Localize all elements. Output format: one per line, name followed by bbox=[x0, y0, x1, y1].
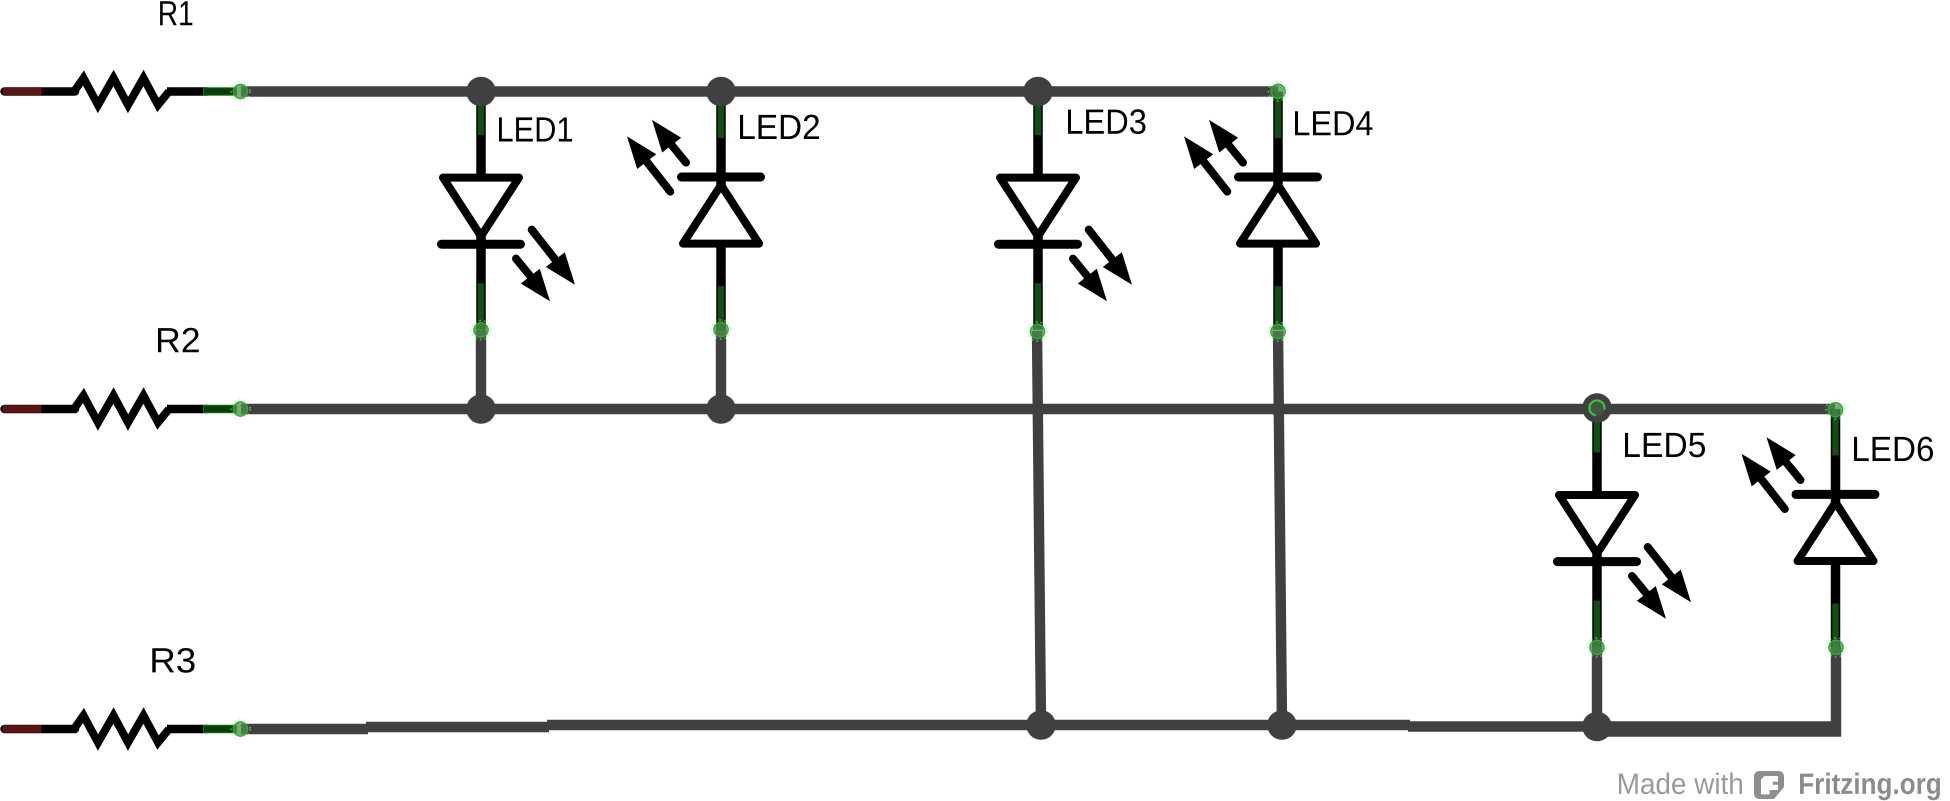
wire LED1 cathode to net2 bbox=[476, 330, 486, 409]
wire LED6 anode corner to net3 bbox=[1592, 647, 1836, 732]
label LED4 bbox=[1295, 111, 1373, 135]
watermark Made with text bbox=[1619, 773, 1742, 795]
junction node net1-LED3 bbox=[1023, 77, 1053, 107]
pin terminal LED3 bottom bbox=[1028, 322, 1047, 341]
wire net3 R3 rail segment d bbox=[1408, 721, 1836, 731]
pin terminal LED2 bottom bbox=[711, 320, 730, 339]
label R1 bbox=[160, 1, 192, 25]
wire net2 R2 rail bbox=[241, 404, 1835, 414]
resistor R2 bbox=[3, 396, 250, 423]
wire LED5 cathode to net3 bbox=[1592, 647, 1602, 727]
junction node net3-LED3 bbox=[1026, 710, 1056, 740]
wire net1 R1 rail bbox=[241, 86, 1278, 96]
junction node net2-LED5 bbox=[1582, 393, 1612, 423]
resistor R3 bbox=[3, 716, 250, 743]
label LED6 bbox=[1854, 437, 1933, 462]
pin terminal LED4 anode top bbox=[1268, 82, 1287, 101]
LED LED1 bbox=[442, 92, 576, 330]
LED LED2 bbox=[627, 92, 761, 330]
junction node net1-LED1 bbox=[466, 77, 496, 107]
wire net3 R3 rail segment a bbox=[241, 724, 368, 734]
junction node net2-LED2 bbox=[706, 394, 736, 424]
label R2 bbox=[158, 328, 199, 352]
wire net3 R3 rail segment b bbox=[366, 722, 549, 732]
watermark Fritzing logo bbox=[1754, 771, 1784, 799]
LED LED5 bbox=[1558, 409, 1692, 647]
wire LED2 anode to net2 bbox=[716, 329, 726, 409]
junction node net3-LED4 bbox=[1267, 710, 1297, 740]
label R3 bbox=[152, 648, 194, 673]
label LED5 bbox=[1625, 433, 1705, 457]
label LED1 bbox=[499, 117, 572, 141]
watermark Fritzing.org text bbox=[1800, 773, 1940, 801]
label LED2 bbox=[740, 115, 819, 139]
wire net3 R3 rail segment c bbox=[547, 720, 1410, 730]
pin terminal LED1 cathode bottom bbox=[471, 320, 490, 339]
pin terminal LED5 anode top bbox=[1588, 399, 1606, 417]
LED LED4 bbox=[1184, 92, 1318, 330]
LED LED3 bbox=[999, 92, 1133, 330]
pin terminal LED4 bottom bbox=[1268, 322, 1287, 341]
pin terminal LED6 anode top bbox=[1826, 400, 1845, 419]
junction node net2-LED1 bbox=[466, 394, 496, 424]
label LED3 bbox=[1068, 109, 1146, 134]
LED LED6 bbox=[1742, 409, 1876, 647]
resistor R1 bbox=[3, 78, 250, 105]
wire LED3 cathode to net3 bbox=[1037, 331, 1041, 725]
pin terminal LED5 bottom bbox=[1587, 638, 1606, 657]
junction node net1-LED2 bbox=[706, 77, 736, 107]
pin terminal LED6 bottom bbox=[1826, 638, 1845, 657]
wire LED4 anode to net3 bbox=[1278, 331, 1282, 725]
junction node net3-LED5 bbox=[1582, 712, 1612, 742]
